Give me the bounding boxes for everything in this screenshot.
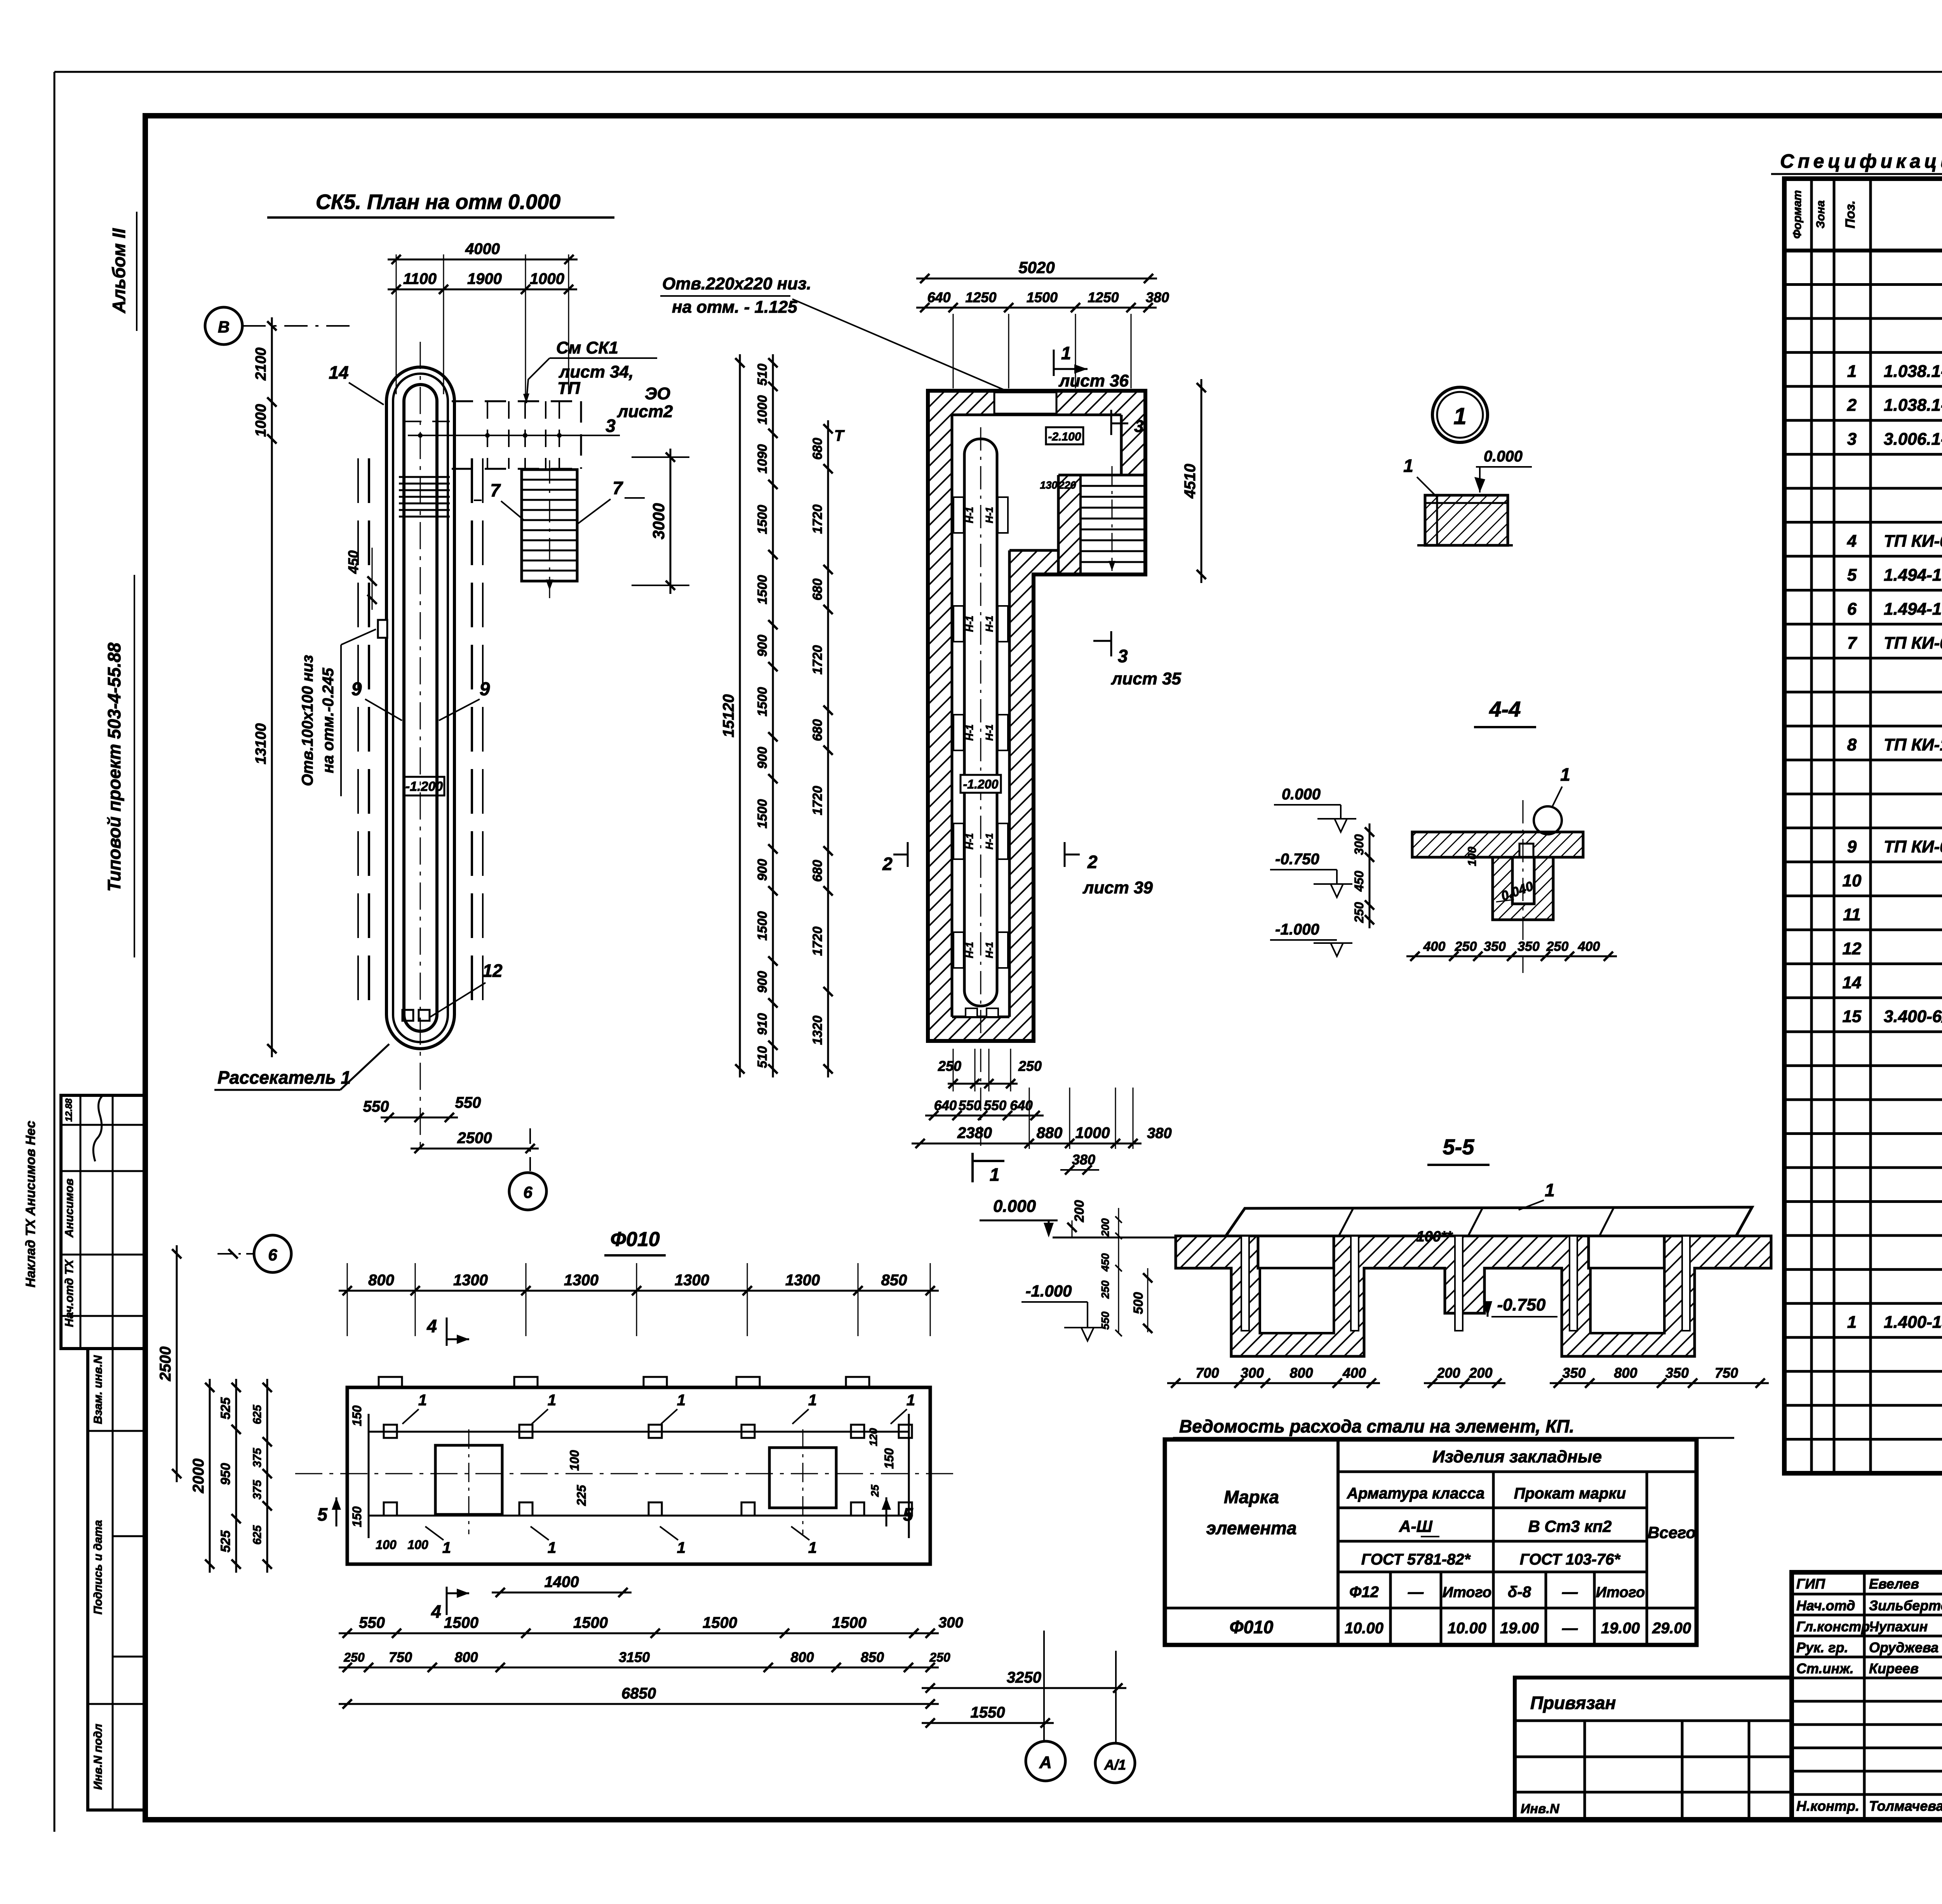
svg-text:1: 1 — [990, 1164, 1000, 1185]
svg-text:Рук. гр.: Рук. гр. — [1796, 1639, 1848, 1655]
svg-text:29.00: 29.00 — [1652, 1620, 1691, 1637]
svg-text:100: 100 — [1466, 847, 1479, 866]
svg-text:Анисимов: Анисимов — [63, 1178, 76, 1238]
post 5 — [1682, 1236, 1690, 1331]
svg-text:625: 625 — [251, 1405, 264, 1424]
svg-text:1: 1 — [677, 1392, 686, 1409]
svg-text:В: В — [218, 318, 230, 336]
anchor plate top 3 — [649, 1425, 662, 1438]
svg-text:1500: 1500 — [755, 505, 770, 534]
dim chain 1500/900 — [772, 354, 774, 1077]
svg-text:200: 200 — [1436, 1365, 1460, 1381]
svg-text:1300: 1300 — [453, 1272, 488, 1289]
anchor plate bottom 3 — [649, 1502, 662, 1516]
svg-text:Привязан: Привязан — [1530, 1693, 1616, 1713]
section flag 2 right — [1064, 842, 1066, 867]
svg-text:3.006.1-2/82 вып.1-2: 3.006.1-2/82 вып.1-2 — [1884, 430, 1942, 449]
svg-text:400: 400 — [1423, 939, 1446, 954]
svg-text:850: 850 — [861, 1649, 884, 1665]
svg-text:-1.200: -1.200 — [963, 777, 999, 791]
svg-text:1: 1 — [1403, 456, 1413, 476]
svg-text:400: 400 — [1578, 939, 1600, 954]
dim chain 680/1720 — [827, 420, 829, 1077]
svg-text:1.494-10: 1.494-10 — [1884, 566, 1942, 585]
svg-text:Альбом II: Альбом II — [109, 228, 129, 313]
svg-text:800: 800 — [790, 1649, 814, 1665]
anchor plate top 4 — [741, 1425, 755, 1438]
svg-text:Н-1: Н-1 — [983, 616, 995, 632]
svg-text:Итого: Итого — [1596, 1584, 1645, 1601]
svg-text:Т: Т — [834, 427, 845, 444]
dims 525 950 525 — [235, 1379, 237, 1573]
svg-text:640: 640 — [934, 1098, 957, 1113]
chain 550 1500x4 300 — [339, 1632, 939, 1634]
svg-text:4: 4 — [426, 1316, 437, 1336]
pit channel outer outline — [386, 367, 454, 1049]
svg-text:Н-1: Н-1 — [964, 616, 975, 632]
svg-text:150: 150 — [882, 1448, 896, 1469]
svg-text:на отм. - 1.125: на отм. - 1.125 — [672, 298, 797, 317]
svg-text:1100: 1100 — [403, 270, 437, 287]
svg-text:Итого: Итого — [1443, 1584, 1491, 1601]
svg-text:150: 150 — [350, 1506, 364, 1527]
svg-text:1: 1 — [1545, 1180, 1555, 1200]
svg-text:1: 1 — [1560, 764, 1570, 785]
H-1 plates pair 3 — [954, 715, 964, 750]
svg-text:ТП КИ-07000-09: ТП КИ-07000-09 — [1884, 634, 1942, 653]
gamma inner outline — [952, 414, 1121, 416]
svg-text:1720: 1720 — [810, 786, 825, 815]
svg-text:130: 130 — [1040, 479, 1057, 491]
svg-text:500: 500 — [1131, 1292, 1146, 1314]
svg-text:3: 3 — [1847, 430, 1857, 449]
svg-text:Нач.отд: Нач.отд — [1796, 1598, 1855, 1613]
svg-text:680: 680 — [810, 438, 825, 460]
left dim chain racetrack — [271, 317, 273, 1057]
edge plate 4 — [736, 1377, 760, 1387]
svg-text:1: 1 — [1061, 343, 1071, 363]
dim chain 640 550 550 640 — [925, 1115, 1044, 1117]
svg-text:Н-1: Н-1 — [983, 507, 995, 523]
svg-text:Гл.констр.: Гл.констр. — [1796, 1619, 1874, 1634]
svg-text:350: 350 — [1517, 939, 1540, 954]
svg-text:375: 375 — [251, 1479, 264, 1499]
svg-text:1500: 1500 — [1027, 289, 1058, 305]
svg-text:1500: 1500 — [832, 1614, 867, 1631]
svg-text:350: 350 — [1562, 1365, 1585, 1381]
svg-text:1500: 1500 — [755, 575, 770, 604]
svg-text:300: 300 — [1352, 834, 1366, 855]
svg-text:3: 3 — [606, 416, 616, 436]
F010 foundation outline — [347, 1387, 930, 1564]
level -1.200 box gamma — [961, 775, 1001, 793]
dim 15120 — [739, 354, 741, 1077]
equipment block right — [769, 1448, 836, 1508]
dashed flank right — [471, 458, 473, 1006]
svg-text:25: 25 — [869, 1485, 881, 1497]
svg-text:1000: 1000 — [755, 395, 770, 425]
leader to hole — [792, 299, 1010, 392]
svg-text:1320: 1320 — [810, 1016, 825, 1045]
F010 top dims — [339, 1290, 939, 1292]
svg-text:680: 680 — [810, 578, 825, 600]
svg-text:2000: 2000 — [190, 1458, 207, 1493]
svg-text:1: 1 — [442, 1539, 451, 1556]
svg-text:5: 5 — [317, 1504, 328, 1525]
svg-text:Марка: Марка — [1224, 1487, 1279, 1507]
svg-text:120: 120 — [867, 1428, 879, 1446]
edge plate 3 — [644, 1377, 667, 1387]
svg-text:1300: 1300 — [785, 1272, 820, 1289]
svg-text:Н-1: Н-1 — [983, 942, 995, 958]
svg-text:Подпись и дата: Подпись и дата — [92, 1520, 104, 1614]
svg-text:225: 225 — [574, 1485, 588, 1506]
svg-text:100: 100 — [376, 1538, 397, 1552]
svg-text:220: 220 — [1058, 479, 1076, 491]
section flag 3 — [1110, 631, 1112, 656]
axis circle A/1 — [1095, 1743, 1135, 1783]
svg-text:200: 200 — [1099, 1218, 1111, 1237]
anchor plate bottom 1 — [384, 1502, 397, 1516]
svg-text:-1.200: -1.200 — [405, 779, 443, 794]
gamma inner slot — [964, 439, 997, 1006]
svg-text:Наклад ТХ Анисимов Нес: Наклад ТХ Анисимов Нес — [23, 1121, 38, 1287]
svg-text:910: 910 — [755, 1013, 770, 1035]
svg-text:3: 3 — [1118, 646, 1128, 666]
svg-text:1: 1 — [677, 1539, 686, 1556]
svg-text:1000: 1000 — [1075, 1124, 1110, 1142]
pit cavities white — [1260, 1268, 1334, 1333]
post 3 — [1455, 1236, 1463, 1331]
svg-text:5: 5 — [1847, 566, 1857, 585]
element 12 plates — [402, 1010, 413, 1021]
svg-text:800: 800 — [368, 1272, 394, 1289]
svg-text:СК5. План на отм 0.000: СК5. План на отм 0.000 — [316, 190, 560, 214]
svg-text:Взам. инв.N: Взам. инв.N — [92, 1355, 104, 1424]
svg-text:350: 350 — [1665, 1365, 1689, 1381]
svg-text:—: — — [1562, 1620, 1578, 1637]
svg-text:Н-1: Н-1 — [964, 724, 975, 741]
svg-text:800: 800 — [1289, 1365, 1313, 1381]
anchor plate top 6 — [899, 1425, 912, 1438]
svg-text:400: 400 — [1342, 1365, 1366, 1381]
edge plate 5 — [846, 1377, 869, 1387]
svg-text:800: 800 — [1614, 1365, 1637, 1381]
svg-text:750: 750 — [1715, 1365, 1738, 1381]
svg-text:Н.контр.: Н.контр. — [1796, 1798, 1859, 1814]
pit channel inner slot — [404, 385, 437, 1031]
svg-text:1720: 1720 — [810, 926, 825, 956]
dims 625 375 375 625 — [266, 1379, 268, 1573]
steel usage table grid — [1165, 1439, 1697, 1645]
svg-text:δ-8: δ-8 — [1508, 1584, 1531, 1601]
grate lines — [399, 476, 450, 478]
staircase plan — [522, 470, 577, 581]
svg-text:1500: 1500 — [703, 1614, 737, 1631]
H-1 plates pair 5 — [954, 932, 964, 968]
svg-text:ЭО: ЭО — [645, 384, 670, 403]
svg-text:лист 39: лист 39 — [1082, 878, 1153, 897]
svg-text:450: 450 — [1099, 1253, 1111, 1272]
svg-text:—: — — [1562, 1584, 1578, 1601]
svg-text:250: 250 — [1455, 939, 1477, 954]
axis line to circle 6 — [529, 1128, 531, 1171]
svg-text:1.400-15 вып.1: 1.400-15 вып.1 — [1884, 1313, 1942, 1332]
svg-text:9: 9 — [1847, 837, 1857, 856]
dims 300 450 250 — [1369, 823, 1371, 928]
svg-text:2100: 2100 — [253, 348, 269, 381]
svg-text:100: 100 — [567, 1450, 581, 1471]
svg-text:1400: 1400 — [545, 1573, 579, 1591]
svg-text:525: 525 — [218, 1397, 233, 1420]
svg-text:Н-1: Н-1 — [983, 724, 995, 741]
H-1 plates pair 1 — [954, 497, 964, 533]
svg-text:Оруджева: Оруджева — [1869, 1639, 1939, 1655]
svg-text:Зона: Зона — [1814, 200, 1827, 228]
svg-text:ГОСТ 5781-82*: ГОСТ 5781-82* — [1361, 1551, 1471, 1568]
pit channel middle outline — [393, 374, 448, 1042]
svg-text:-1.000: -1.000 — [1025, 1282, 1072, 1300]
svg-text:Евелев: Евелев — [1869, 1576, 1919, 1592]
edge plate 2 — [514, 1377, 538, 1387]
svg-text:Н-1: Н-1 — [964, 507, 975, 523]
svg-text:850: 850 — [881, 1272, 907, 1289]
svg-text:В Ст3 кп2: В Ст3 кп2 — [1528, 1517, 1611, 1535]
svg-text:1300: 1300 — [675, 1272, 709, 1289]
svg-text:350: 350 — [1484, 939, 1506, 954]
svg-text:А: А — [1039, 1753, 1052, 1772]
centerline horizontal — [295, 1473, 959, 1474]
svg-text:1500: 1500 — [755, 687, 770, 717]
svg-text:250: 250 — [1018, 1058, 1042, 1074]
post 1 — [1241, 1236, 1249, 1331]
section flag 5 left — [336, 1497, 338, 1526]
svg-text:150: 150 — [350, 1405, 364, 1426]
svg-text:Ф12: Ф12 — [1349, 1584, 1379, 1601]
svg-text:Инв.N: Инв.N — [1521, 1801, 1560, 1816]
svg-text:4510: 4510 — [1182, 464, 1199, 499]
dashed monolith area — [452, 400, 581, 402]
dim 2500 — [411, 1148, 539, 1150]
svg-text:1: 1 — [808, 1539, 817, 1556]
dim 1550 — [922, 1722, 1054, 1724]
svg-text:Нач.отд ТХ: Нач.отд ТХ — [63, 1259, 76, 1327]
dim 2500 F010 — [176, 1245, 178, 1482]
svg-text:300: 300 — [938, 1615, 963, 1631]
svg-text:4000: 4000 — [465, 240, 500, 258]
svg-text:6: 6 — [523, 1183, 532, 1201]
svg-text:1500: 1500 — [573, 1614, 608, 1631]
section 5-5 bottom dims — [1167, 1382, 1380, 1384]
svg-text:6: 6 — [268, 1246, 277, 1264]
axis line to circle A/1 — [1115, 1651, 1117, 1743]
title block outer — [1792, 1572, 1942, 1820]
svg-text:13100: 13100 — [253, 723, 269, 764]
svg-text:Зильбертов: Зильбертов — [1869, 1598, 1942, 1613]
svg-text:Инв.N подл: Инв.N подл — [92, 1724, 104, 1790]
svg-text:4-4: 4-4 — [1489, 697, 1521, 721]
left margin stamp block (upper) — [61, 1095, 145, 1349]
svg-text:1: 1 — [548, 1392, 556, 1409]
slab plate row (element 1) — [1226, 1207, 1752, 1236]
svg-text:—: — — [1408, 1584, 1424, 1601]
svg-text:А/1: А/1 — [1104, 1757, 1126, 1773]
svg-text:Н-1: Н-1 — [964, 942, 975, 958]
svg-text:1250: 1250 — [965, 289, 996, 305]
dim chain 1100 1900 1000 — [388, 289, 577, 291]
svg-text:11: 11 — [1843, 905, 1861, 924]
svg-text:250: 250 — [343, 1650, 365, 1664]
svg-text:1: 1 — [1847, 1313, 1857, 1332]
svg-text:0.000: 0.000 — [1282, 786, 1321, 803]
svg-text:9: 9 — [352, 679, 362, 700]
axis circle A — [1026, 1741, 1065, 1781]
section 4-4 bottom dims — [1406, 955, 1617, 957]
svg-text:-1.000: -1.000 — [1275, 921, 1319, 938]
svg-text:14: 14 — [1843, 973, 1862, 992]
svg-text:ТП КИ-11000-03: ТП КИ-11000-03 — [1884, 735, 1942, 754]
svg-text:Формат: Формат — [1791, 190, 1804, 238]
level -1.200 box — [404, 777, 444, 795]
svg-text:1900: 1900 — [467, 270, 502, 287]
svg-text:3.400-6/76: 3.400-6/76 — [1884, 1007, 1942, 1026]
post 4 — [1570, 1236, 1577, 1331]
svg-text:2: 2 — [1847, 396, 1857, 415]
svg-text:950: 950 — [218, 1463, 233, 1485]
svg-text:лист 36: лист 36 — [1058, 371, 1129, 390]
svg-text:550: 550 — [959, 1098, 981, 1113]
section flag 4 top — [446, 1317, 448, 1346]
svg-text:лист 35: лист 35 — [1111, 669, 1182, 688]
svg-text:Ф010: Ф010 — [610, 1228, 660, 1251]
svg-text:Ф010: Ф010 — [1230, 1617, 1274, 1637]
svg-text:200: 200 — [1072, 1200, 1087, 1223]
section flag 5 right — [886, 1497, 887, 1526]
svg-text:380: 380 — [1147, 1125, 1171, 1142]
dim 3250 — [922, 1687, 1126, 1689]
svg-text:Изделия закладные: Изделия закладные — [1432, 1447, 1602, 1466]
svg-text:лист2: лист2 — [617, 402, 673, 421]
svg-text:Поз.: Поз. — [1843, 200, 1858, 228]
stairs in gamma bar — [1081, 485, 1143, 487]
svg-text:19.00: 19.00 — [1601, 1620, 1640, 1637]
section 4-4 slab — [1412, 832, 1583, 857]
svg-text:10.00: 10.00 — [1345, 1620, 1383, 1637]
anchor plate top 1 — [384, 1425, 397, 1438]
axis circle B — [205, 307, 242, 345]
svg-text:2: 2 — [1087, 852, 1098, 872]
svg-text:625: 625 — [251, 1525, 264, 1545]
anchor plate bottom 2 — [519, 1502, 532, 1516]
section 4-4 pit walls and floor — [1493, 857, 1553, 920]
svg-text:750: 750 — [389, 1649, 412, 1665]
svg-text:7: 7 — [490, 480, 501, 500]
svg-text:1720: 1720 — [810, 645, 825, 675]
axis line to circle A — [1043, 1631, 1045, 1741]
svg-text:880: 880 — [1037, 1124, 1063, 1142]
svg-text:380: 380 — [1072, 1152, 1095, 1168]
detail circle 1 — [1432, 387, 1488, 442]
svg-text:380: 380 — [1146, 289, 1169, 305]
svg-text:1300: 1300 — [564, 1272, 599, 1289]
svg-text:2500: 2500 — [457, 1130, 492, 1147]
svg-text:ТП КИ-07000-06: ТП КИ-07000-06 — [1884, 532, 1942, 551]
dim 3000 stairs — [670, 449, 672, 594]
svg-text:14: 14 — [329, 362, 348, 383]
svg-text:1.494-10: 1.494-10 — [1884, 599, 1942, 618]
dim 1400 — [492, 1592, 632, 1594]
dim 550 550 — [381, 1117, 458, 1119]
axis circle 6 left — [254, 1235, 291, 1272]
ground slab hatched — [1176, 1236, 1771, 1356]
svg-text:550: 550 — [359, 1614, 385, 1631]
section flag 2 left — [907, 842, 909, 867]
svg-text:ГОСТ 103-76*: ГОСТ 103-76* — [1520, 1551, 1621, 1568]
svg-text:510: 510 — [755, 364, 770, 386]
anchor plate bottom 5 — [851, 1502, 864, 1516]
dim 4000 — [388, 259, 578, 261]
svg-text:1: 1 — [907, 1392, 915, 1409]
MN circle element — [1534, 806, 1562, 834]
svg-text:элемента: элемента — [1206, 1518, 1297, 1538]
specification table grid — [1784, 179, 1942, 1473]
svg-text:12: 12 — [1843, 939, 1862, 958]
dim chain 640 1250 1500 1250 380 — [916, 307, 1157, 309]
svg-text:1550: 1550 — [971, 1704, 1005, 1721]
svg-text:Арматура класса: Арматура класса — [1347, 1485, 1484, 1502]
section flag 1 top — [1053, 350, 1055, 376]
section 4-4 axis — [1523, 800, 1524, 973]
svg-text:250: 250 — [938, 1058, 961, 1074]
svg-text:15120: 15120 — [720, 694, 737, 737]
svg-text:550: 550 — [984, 1098, 1007, 1113]
svg-text:3: 3 — [1134, 417, 1143, 436]
svg-text:900: 900 — [755, 859, 770, 881]
svg-text:Ведомость расхода стали на: Ведомость расхода стали на элемент, КП. — [1179, 1416, 1574, 1436]
svg-text:6850: 6850 — [621, 1685, 656, 1702]
svg-text:1250: 1250 — [1088, 289, 1119, 305]
anchor plate top 5 — [851, 1425, 864, 1438]
svg-text:1720: 1720 — [810, 505, 825, 534]
svg-text:510: 510 — [755, 1046, 770, 1068]
svg-text:680: 680 — [810, 860, 825, 882]
svg-text:900: 900 — [755, 971, 770, 993]
svg-text:6: 6 — [1847, 599, 1857, 618]
svg-text:Отв.100х100 низ: Отв.100х100 низ — [299, 655, 316, 786]
svg-text:Типовой проект 503-4-55.: Типовой проект 503-4-55.88 — [104, 642, 124, 892]
svg-text:А-Ш: А-Ш — [1399, 1517, 1432, 1535]
H-1 plates pair 4 — [954, 823, 964, 859]
svg-text:10.00: 10.00 — [1448, 1620, 1486, 1637]
svg-text:Рассекатель 1: Рассекатель 1 — [218, 1067, 351, 1088]
svg-text:2: 2 — [882, 854, 893, 874]
svg-text:1000: 1000 — [530, 270, 564, 287]
svg-text:5-5: 5-5 — [1443, 1135, 1475, 1159]
gamma pit walls hatched — [928, 391, 1145, 1041]
svg-text:550: 550 — [1099, 1311, 1111, 1330]
svg-text:4: 4 — [1847, 532, 1857, 551]
svg-text:8: 8 — [1847, 735, 1857, 754]
svg-text:550: 550 — [363, 1098, 389, 1115]
hole notch — [378, 620, 387, 638]
dim chain 2380 880 1000 380 — [912, 1143, 1142, 1145]
svg-text:1: 1 — [808, 1392, 817, 1409]
svg-text:Ст.инж.: Ст.инж. — [1796, 1660, 1854, 1676]
svg-text:3000: 3000 — [649, 503, 668, 539]
dim 6850 — [339, 1703, 939, 1705]
svg-text:См СК1: См СК1 — [556, 338, 618, 357]
dashed flank left — [368, 458, 370, 1006]
